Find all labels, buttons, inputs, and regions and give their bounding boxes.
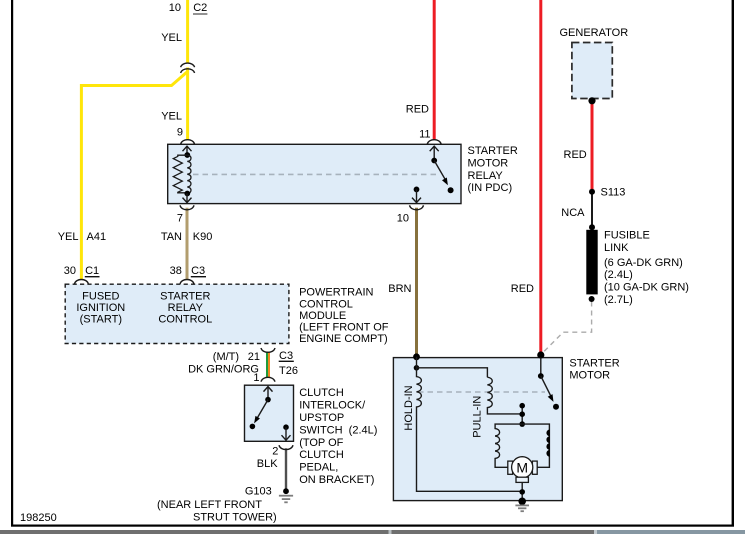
- starter BRN feed node: [413, 353, 420, 360]
- svg-text:YEL: YEL: [161, 111, 182, 123]
- starter case ground node: [518, 498, 526, 506]
- svg-text:(10 GA-DK GRN): (10 GA-DK GRN): [604, 282, 689, 294]
- svg-text:DK GRN/ORG: DK GRN/ORG: [188, 364, 259, 376]
- starter RED feed node: [537, 351, 544, 358]
- svg-text:1: 1: [253, 372, 259, 384]
- wire DK GRN/ORG (orange half): [268, 352, 270, 379]
- PCM pin 21 exit connector arc: [261, 348, 275, 352]
- svg-text:IGNITION: IGNITION: [76, 302, 125, 314]
- powertrain control module box: [65, 284, 289, 343]
- starter switch contact dot: [553, 404, 559, 410]
- svg-text:10: 10: [397, 213, 409, 225]
- wire BLK clutch switch to G103: [285, 448, 287, 489]
- motor ground lead: [521, 482, 523, 501]
- ground G103 node dot: [283, 488, 289, 494]
- svg-text:A41: A41: [87, 231, 107, 243]
- ground G103 symbol bars: [279, 495, 293, 497]
- clutch switch pin 1 arrow: [267, 387, 269, 400]
- svg-text:11: 11: [419, 129, 430, 141]
- relay switch common arrow (pin 11): [433, 146, 435, 160]
- svg-text:(IN PDC): (IN PDC): [468, 182, 513, 194]
- svg-text:STRUT TOWER): STRUT TOWER): [193, 512, 277, 524]
- svg-text:198250: 198250: [20, 512, 57, 524]
- svg-text:2: 2: [272, 445, 278, 457]
- frame right border: [732, 0, 734, 527]
- svg-text:PULL-IN: PULL-IN: [472, 396, 484, 438]
- svg-text:(LEFT FRONT OF: (LEFT FRONT OF: [299, 322, 389, 334]
- wire TAN relay pin 7 to PCM pin 38: [186, 208, 189, 280]
- starter motor box: [393, 358, 562, 501]
- frame bottom border: [11, 525, 734, 527]
- svg-text:(6 GA-DK GRN): (6 GA-DK GRN): [604, 257, 683, 269]
- svg-text:MODULE: MODULE: [299, 310, 346, 322]
- fusible link top node: [589, 224, 595, 230]
- svg-text:G103: G103: [245, 485, 272, 497]
- svg-text:10: 10: [169, 2, 181, 14]
- svg-text:STARTER: STARTER: [569, 357, 619, 369]
- clutch switch blade contact dot: [250, 424, 256, 430]
- PCM pin 30/C1 connector arc: [74, 280, 88, 285]
- PCM pin 38/C3 connector arc: [180, 280, 194, 285]
- starter switch blade from RED node: [540, 358, 542, 376]
- motor left brush: [508, 461, 513, 474]
- wire YEL top segment (C2 feed): [186, 0, 189, 64]
- motor bottom junction: [519, 489, 525, 495]
- svg-text:(TOP OF: (TOP OF: [299, 437, 343, 449]
- svg-text:TAN: TAN: [161, 231, 182, 243]
- clutch switch pin 2 connector arc: [279, 445, 293, 449]
- svg-text:T26: T26: [279, 365, 298, 377]
- inline connector on YEL wire (lower arc): [181, 69, 195, 73]
- relay switch blade with arrowhead: [434, 161, 446, 182]
- svg-text:C2: C2: [193, 2, 207, 14]
- clutch switch blade: [256, 400, 268, 420]
- svg-text:C3: C3: [191, 265, 205, 277]
- svg-text:CLUTCH: CLUTCH: [299, 387, 344, 399]
- wire BRN relay pin 10 to starter hold-in: [415, 208, 418, 356]
- relay pin 7 connector arc: [180, 205, 194, 210]
- wire RED to relay pin 11: [433, 0, 436, 140]
- svg-text:HOLD-IN: HOLD-IN: [403, 385, 415, 430]
- svg-text:S113: S113: [601, 187, 626, 199]
- solenoid contact stub: [521, 406, 523, 424]
- svg-text:CONTROL: CONTROL: [158, 314, 212, 326]
- svg-text:21: 21: [248, 351, 260, 363]
- generator box: [572, 43, 612, 99]
- svg-text:RED: RED: [564, 149, 587, 161]
- svg-text:LINK: LINK: [604, 242, 629, 254]
- svg-text:BRN: BRN: [388, 283, 411, 295]
- frame left border: [11, 0, 13, 527]
- svg-text:30: 30: [64, 265, 76, 277]
- relay coil top junction: [184, 152, 190, 158]
- relay mechanical dashed line: [193, 173, 437, 175]
- wire YEL lower segment to relay pin 9: [186, 68, 189, 140]
- svg-text:FUSED: FUSED: [82, 290, 119, 302]
- wire YEL branch to PCM pin 30: [81, 72, 187, 281]
- clutch interlock switch box: [245, 385, 294, 441]
- relay pin 9 connector arc: [181, 140, 195, 145]
- svg-text:PEDAL,: PEDAL,: [299, 462, 338, 474]
- svg-text:RELAY: RELAY: [468, 170, 504, 182]
- relay pin 10 contact dot: [414, 187, 420, 193]
- svg-text:UPSTOP: UPSTOP: [299, 412, 344, 424]
- svg-text:RED: RED: [406, 104, 429, 116]
- motor field winding (right, heavy): [522, 424, 549, 467]
- wire DK GRN/ORG PCM pin 21 to clutch switch (green half): [266, 352, 268, 379]
- clutch switch pin 2 exit arrow: [285, 427, 287, 440]
- generator output node: [588, 97, 595, 104]
- starter motor relay U-relay box: [168, 144, 461, 203]
- dashed link fusible link to starter motor: [541, 302, 591, 355]
- svg-text:STARTER: STARTER: [468, 145, 518, 157]
- svg-text:MOTOR: MOTOR: [468, 158, 509, 170]
- splice S113: [589, 189, 595, 195]
- svg-text:C3: C3: [279, 350, 293, 362]
- bottom gray status band: [0, 530, 745, 534]
- svg-text:BLK: BLK: [257, 458, 278, 470]
- svg-text:ON BRACKET): ON BRACKET): [299, 474, 374, 486]
- wire RED battery feed to starter motor: [539, 0, 542, 355]
- svg-text:MOTOR: MOTOR: [569, 370, 610, 382]
- clutch switch pivot dot: [265, 397, 271, 403]
- relay switch contact dot: [448, 187, 454, 193]
- relay coil exit arrow (pin 7): [186, 194, 188, 203]
- svg-text:CLUTCH: CLUTCH: [299, 449, 344, 461]
- relay pin 10 exit arrow: [416, 189, 418, 202]
- motor armature loop: [495, 424, 522, 467]
- svg-text:SWITCH (2.4L): SWITCH (2.4L): [299, 424, 377, 436]
- fusible link bottom node: [589, 296, 595, 302]
- svg-text:FUSIBLE: FUSIBLE: [604, 230, 650, 242]
- svg-text:C1: C1: [85, 265, 99, 277]
- svg-text:GENERATOR: GENERATOR: [560, 27, 629, 39]
- wire RED generator to S113: [591, 103, 594, 190]
- pull-in coil: [487, 377, 522, 414]
- hold-in coil: [417, 357, 523, 492]
- svg-text:STARTER: STARTER: [160, 290, 210, 302]
- svg-text:POWERTRAIN: POWERTRAIN: [299, 287, 373, 299]
- svg-text:INTERLOCK/: INTERLOCK/: [299, 400, 366, 412]
- svg-text:NCA: NCA: [561, 207, 585, 219]
- clutch switch output contact dot: [283, 424, 289, 430]
- svg-text:(2.7L): (2.7L): [604, 294, 633, 306]
- starter mechanical dashed line: [418, 391, 545, 393]
- relay coil bottom junction: [184, 191, 190, 197]
- svg-text:(2.4L): (2.4L): [604, 269, 633, 281]
- svg-text:9: 9: [177, 127, 183, 139]
- svg-text:YEL: YEL: [58, 231, 79, 243]
- relay coil zigzag resistor (left): [173, 155, 187, 193]
- svg-text:YEL: YEL: [161, 32, 182, 44]
- inline connector on YEL wire (upper arc): [181, 63, 195, 67]
- svg-text:RELAY: RELAY: [168, 302, 204, 314]
- svg-text:(M/T): (M/T): [213, 351, 239, 363]
- relay coil winding (right bumps): [187, 155, 191, 193]
- wire hold-in junction to pull-in coil: [417, 368, 488, 377]
- starter hold-in top junction: [414, 365, 420, 371]
- svg-text:(NEAR LEFT FRONT: (NEAR LEFT FRONT: [157, 499, 262, 511]
- relay switch pivot dot: [431, 158, 437, 164]
- motor commutator block: [516, 477, 528, 482]
- relay pin 11 connector arc: [427, 140, 441, 145]
- fusible link body: [586, 230, 597, 295]
- svg-text:38: 38: [170, 265, 182, 277]
- clutch switch pin 1 connector arc: [261, 377, 275, 381]
- svg-text:7: 7: [177, 213, 183, 225]
- svg-text:RED: RED: [511, 283, 534, 295]
- svg-text:(START): (START): [80, 314, 122, 326]
- starter ground symbol bars: [515, 504, 529, 506]
- relay pin 10 connector arc: [410, 205, 424, 210]
- relay coil feed arrow (pin 9): [186, 146, 188, 155]
- svg-text:ENGINE COMPT): ENGINE COMPT): [299, 333, 388, 345]
- motor circle: [512, 457, 533, 478]
- svg-text:M: M: [516, 459, 528, 475]
- wire NCA S113 to fusible link: [591, 193, 593, 228]
- svg-text:CONTROL: CONTROL: [299, 298, 353, 310]
- svg-text:K90: K90: [193, 231, 213, 243]
- motor right brush: [532, 461, 537, 474]
